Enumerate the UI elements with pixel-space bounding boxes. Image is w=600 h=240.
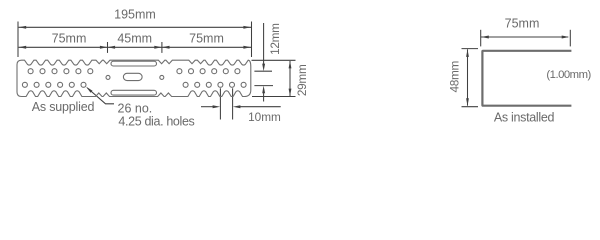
tick strip bottom bbox=[252, 96, 296, 98]
dim 29mm line bbox=[289, 61, 291, 96]
svg-text:75mm: 75mm bbox=[52, 31, 87, 45]
svg-text:12mm: 12mm bbox=[268, 23, 282, 55]
slot top bbox=[111, 61, 157, 66]
tick hole row top bbox=[254, 70, 272, 72]
svg-text:75mm: 75mm bbox=[505, 17, 540, 31]
ext line right-fig right bbox=[569, 30, 571, 47]
chain tick 1 bbox=[107, 42, 109, 53]
svg-text:29mm: 29mm bbox=[295, 64, 309, 96]
svg-text:10mm: 10mm bbox=[248, 110, 281, 124]
arrowheads 12mm (outside pair) bbox=[262, 64, 265, 94]
leader 26no bbox=[87, 88, 114, 104]
chain tick 2 bbox=[161, 42, 163, 53]
arrowheads 10mm (outside pair) bbox=[213, 105, 241, 108]
arrowhead 195mm left bbox=[19, 26, 27, 29]
svg-text:26 no.: 26 no. bbox=[118, 101, 153, 115]
mid holes bbox=[106, 75, 164, 79]
arrowheads 75mm right figure bbox=[481, 36, 569, 39]
holes bottom row left bbox=[22, 82, 86, 87]
arrowheads 75mm second segment bbox=[162, 46, 251, 49]
ext line 10mm left bbox=[219, 88, 221, 119]
dim 12mm shaft upper bbox=[263, 23, 265, 65]
svg-text:As installed: As installed bbox=[494, 110, 555, 124]
tick 48mm top bbox=[462, 48, 479, 50]
svg-text:48mm: 48mm bbox=[448, 60, 462, 92]
ext line 10mm right bbox=[232, 88, 234, 119]
dim chain line bbox=[19, 46, 251, 48]
svg-text:As supplied: As supplied bbox=[32, 100, 95, 114]
dim 75mm line right fig bbox=[481, 36, 568, 38]
svg-text:45mm: 45mm bbox=[117, 31, 152, 45]
dim 12mm shaft lower bbox=[263, 92, 265, 102]
angle profile (channel) bbox=[482, 51, 571, 106]
svg-text:(1.00mm): (1.00mm) bbox=[546, 69, 591, 81]
dim 195mm line bbox=[19, 26, 251, 28]
dim 48mm line bbox=[467, 49, 469, 105]
svg-text:4.25 dia. holes: 4.25 dia. holes bbox=[118, 115, 194, 129]
tick strip top bbox=[252, 59, 296, 61]
extension line left bbox=[17, 22, 19, 58]
slot middle bbox=[123, 73, 142, 80]
arrowheads 75mm segment bbox=[19, 46, 108, 49]
arrowheads 48mm bbox=[466, 49, 469, 106]
tick hole row bottom bbox=[254, 85, 273, 87]
arrowhead 195mm right bbox=[243, 26, 251, 29]
holes top row right bbox=[177, 69, 240, 74]
dim 10mm shaft left bbox=[201, 106, 214, 108]
extension line right bbox=[251, 22, 253, 58]
svg-text:195mm: 195mm bbox=[114, 7, 156, 21]
holes bottom row right bbox=[183, 82, 246, 87]
ext line right-fig left bbox=[480, 30, 482, 47]
holes top row left bbox=[28, 69, 93, 74]
slot bottom bbox=[111, 90, 157, 95]
arrowheads 45mm segment bbox=[108, 46, 162, 49]
arrowheads 29mm bbox=[289, 61, 292, 96]
strip outline bbox=[17, 60, 251, 96]
svg-text:75mm: 75mm bbox=[189, 31, 224, 45]
tick 48mm bottom bbox=[462, 106, 479, 108]
arrowhead leader 26no bbox=[86, 87, 93, 93]
dim 10mm shaft right bbox=[240, 106, 281, 108]
